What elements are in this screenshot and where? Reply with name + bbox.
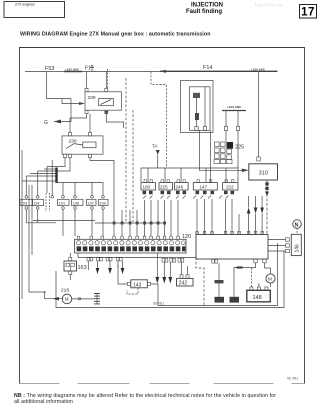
svg-text:147: 147 bbox=[200, 185, 208, 190]
main trunk right bbox=[258, 71, 260, 157]
pin row under diagnostic bbox=[195, 127, 198, 131]
earth component 1 bbox=[215, 297, 225, 303]
collector under strip bbox=[78, 253, 196, 258]
svg-text:143: 143 bbox=[133, 282, 142, 288]
earth component 2 bbox=[230, 297, 240, 303]
wire arrow into motor bbox=[45, 292, 62, 299]
pin above unit 310 bbox=[257, 157, 260, 161]
ECU bottom pins bbox=[254, 259, 257, 263]
120 strip top pins bbox=[77, 236, 179, 239]
injection ECU box bbox=[196, 235, 268, 260]
svg-text:222: 222 bbox=[226, 185, 234, 190]
bottom routing wires bbox=[158, 243, 278, 306]
wire bus step to connector block bbox=[151, 72, 167, 169]
wires pin pairs down bbox=[87, 261, 89, 270]
wire motor to resistor bbox=[72, 298, 94, 300]
svg-text:194: 194 bbox=[33, 201, 39, 205]
svg-text:+12V ANC: +12V ANC bbox=[227, 105, 242, 109]
relay 236 bbox=[62, 136, 103, 154]
right row feed bracket bbox=[141, 168, 238, 182]
junction ticks on collector bbox=[113, 222, 166, 225]
left rail long wires bbox=[21, 181, 23, 299]
junction trunk (thick) bbox=[55, 168, 57, 183]
vertical feeds into collector ticks bbox=[113, 210, 115, 236]
wires left row to ECU bbox=[25, 209, 27, 223]
bus wire F14 segment (thicker) bbox=[160, 70, 278, 72]
right connector row boxes bbox=[141, 183, 238, 190]
svg-text:http://vnx.su: http://vnx.su bbox=[255, 3, 283, 8]
wire pin to matrix 225 bbox=[225, 131, 227, 143]
idle valve 148 bbox=[247, 290, 270, 302]
wire collectors under 236 bbox=[47, 158, 65, 167]
control unit 310 bbox=[249, 164, 278, 180]
wire 143 bottom dashed bbox=[127, 288, 138, 294]
relay 239 bbox=[85, 92, 121, 110]
collector wire y223 bbox=[26, 222, 56, 224]
svg-text:196: 196 bbox=[73, 201, 79, 205]
chassis arrows mid group bbox=[156, 253, 158, 277]
wire 239 pin down bbox=[106, 114, 123, 128]
header title INJECTION / Fault finding bbox=[186, 3, 223, 15]
svg-text:239: 239 bbox=[88, 95, 96, 101]
svg-text:193: 193 bbox=[21, 201, 27, 205]
left connector row boxes bbox=[20, 199, 108, 205]
svg-text:Fault finding: Fault finding bbox=[186, 9, 222, 15]
wire 239 to 236 bbox=[70, 114, 87, 133]
svg-text:197: 197 bbox=[87, 201, 93, 205]
left rail wires bbox=[21, 150, 23, 181]
svg-text:WIRING DIAGRAM Engine 27X Man: WIRING DIAGRAM Engine 27X Manual gear bo… bbox=[20, 32, 211, 38]
svg-text:F14: F14 bbox=[203, 65, 212, 71]
strip bottom pin pairs bbox=[87, 257, 218, 263]
thick bus segment under +12V AVC bbox=[64, 71, 82, 73]
wire branch to relay 239 bbox=[62, 99, 80, 104]
svg-text:VE 451: VE 451 bbox=[287, 377, 298, 381]
svg-text:242: 242 bbox=[179, 281, 188, 287]
relay 239 pins bbox=[85, 88, 88, 91]
right row bottom pins (dark) bbox=[143, 191, 235, 194]
svg-text:225: 225 bbox=[160, 185, 168, 190]
long dashed link lines bbox=[125, 78, 127, 222]
page number box 17 bbox=[300, 5, 317, 19]
diagnostic connector outer box bbox=[181, 81, 214, 133]
svg-text:M: M bbox=[268, 277, 272, 282]
wire below 310 bbox=[266, 180, 268, 235]
svg-text:+12V AVC: +12V AVC bbox=[251, 67, 266, 71]
right row hatch marks bbox=[143, 196, 229, 199]
120 strip pin squares row (dark) bbox=[77, 246, 186, 251]
throttle unit 143 bbox=[131, 280, 148, 288]
svg-text:163: 163 bbox=[78, 265, 87, 271]
svg-text:TA: TA bbox=[152, 144, 157, 149]
right row top pin ticks bbox=[144, 180, 234, 183]
resistor ladder bbox=[94, 294, 100, 304]
svg-text:27X engines: 27X engines bbox=[15, 3, 35, 7]
motor M right bbox=[266, 274, 275, 283]
svg-text:17: 17 bbox=[301, 7, 315, 19]
svg-text:F53: F53 bbox=[45, 66, 54, 72]
node N circle bbox=[293, 220, 302, 229]
148 top pins bbox=[250, 287, 253, 290]
wire pin to bracket bbox=[237, 131, 239, 169]
dashed link near left row bbox=[45, 193, 47, 212]
wires ECU to relay 146 bbox=[268, 240, 286, 252]
svg-text:M: M bbox=[65, 297, 69, 302]
wire 239 to 236 second bbox=[89, 114, 91, 128]
left row bottom pins bbox=[25, 207, 104, 210]
wire group 147/222 to ECU verticals bbox=[196, 199, 198, 235]
pin tick above F1 bbox=[91, 65, 94, 72]
sensor 242 bbox=[177, 278, 194, 286]
wire 236 feed bbox=[89, 128, 91, 133]
wire junction arrow below 239 bbox=[105, 111, 108, 115]
right row labels bbox=[143, 185, 235, 190]
120 strip circles row bbox=[76, 241, 185, 245]
svg-text:160: 160 bbox=[143, 185, 151, 190]
wire to 143 left bbox=[118, 265, 127, 284]
svg-text:191: 191 bbox=[59, 201, 65, 205]
wire pin to sensor 147 bbox=[210, 131, 212, 183]
pin matrix 225 bbox=[214, 142, 233, 164]
arrow into relay 239 bbox=[79, 102, 85, 105]
svg-text:all additional information: all additional information bbox=[14, 399, 73, 405]
diagram frame bbox=[20, 48, 305, 384]
svg-text:246: 246 bbox=[176, 185, 184, 190]
header box "27X engines" bbox=[4, 2, 65, 18]
svg-text:310: 310 bbox=[259, 171, 268, 177]
relay 236 pins bbox=[69, 133, 72, 136]
svg-text:INJECTION: INJECTION bbox=[191, 3, 223, 9]
bus left arrowhead bbox=[160, 70, 166, 73]
wire into 310 with arrow bbox=[200, 131, 243, 171]
wire F53 down trunk bbox=[47, 72, 72, 99]
svg-text:218: 218 bbox=[61, 288, 69, 294]
svg-text:N: N bbox=[295, 223, 299, 229]
svg-text:225: 225 bbox=[235, 145, 244, 151]
svg-text:G: G bbox=[44, 120, 48, 126]
solenoid 163 bbox=[64, 261, 77, 271]
svg-text:85481: 85481 bbox=[153, 302, 165, 306]
header rule bbox=[4, 17, 316, 19]
relay 146 pins bbox=[286, 238, 290, 241]
svg-text:148: 148 bbox=[253, 295, 262, 301]
dark bar element bbox=[195, 113, 199, 120]
node G arrow bbox=[54, 99, 71, 122]
wire F1 drops bbox=[86, 72, 88, 89]
svg-text:146: 146 bbox=[295, 244, 301, 253]
ECU connector 120 strip bbox=[75, 239, 187, 253]
chassis arrows left group bbox=[96, 268, 100, 274]
main supply bus wire bbox=[25, 71, 160, 73]
left connector row pins top bbox=[25, 196, 104, 199]
wire 143 right bbox=[151, 284, 158, 292]
ECU top pin ticks bbox=[196, 231, 264, 234]
wire rail to motor bbox=[29, 255, 45, 292]
svg-text:199: 199 bbox=[99, 201, 105, 205]
left row labels bbox=[21, 201, 106, 205]
diagnostic connector inner box bbox=[190, 87, 211, 131]
arrows to chassis (up/down triangles) bbox=[247, 208, 251, 214]
svg-text:F1: F1 bbox=[85, 66, 91, 72]
fuse element (hatched) bbox=[193, 93, 200, 98]
dark bar component bbox=[215, 280, 224, 283]
relay 146 bbox=[291, 234, 301, 255]
wire fan below junction bbox=[57, 183, 104, 197]
diagram frame bottom (faded dashed) bbox=[20, 383, 305, 385]
